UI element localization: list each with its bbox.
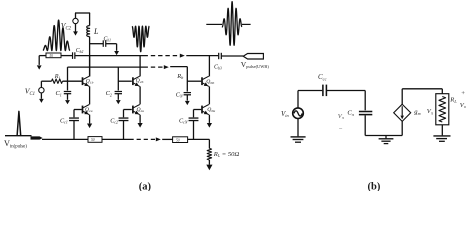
- svg-text:(b): (b): [368, 181, 381, 191]
- svg-text:RL = 50Ω: RL = 50Ω: [213, 151, 240, 158]
- svg-text:50: 50: [50, 54, 54, 58]
- svg-text:50: 50: [176, 138, 180, 142]
- svg-text:L: L: [93, 27, 99, 36]
- svg-text:+: +: [461, 90, 465, 97]
- svg-text:−: −: [338, 126, 342, 133]
- svg-text:(a): (a): [139, 181, 152, 191]
- svg-text:50: 50: [91, 138, 95, 142]
